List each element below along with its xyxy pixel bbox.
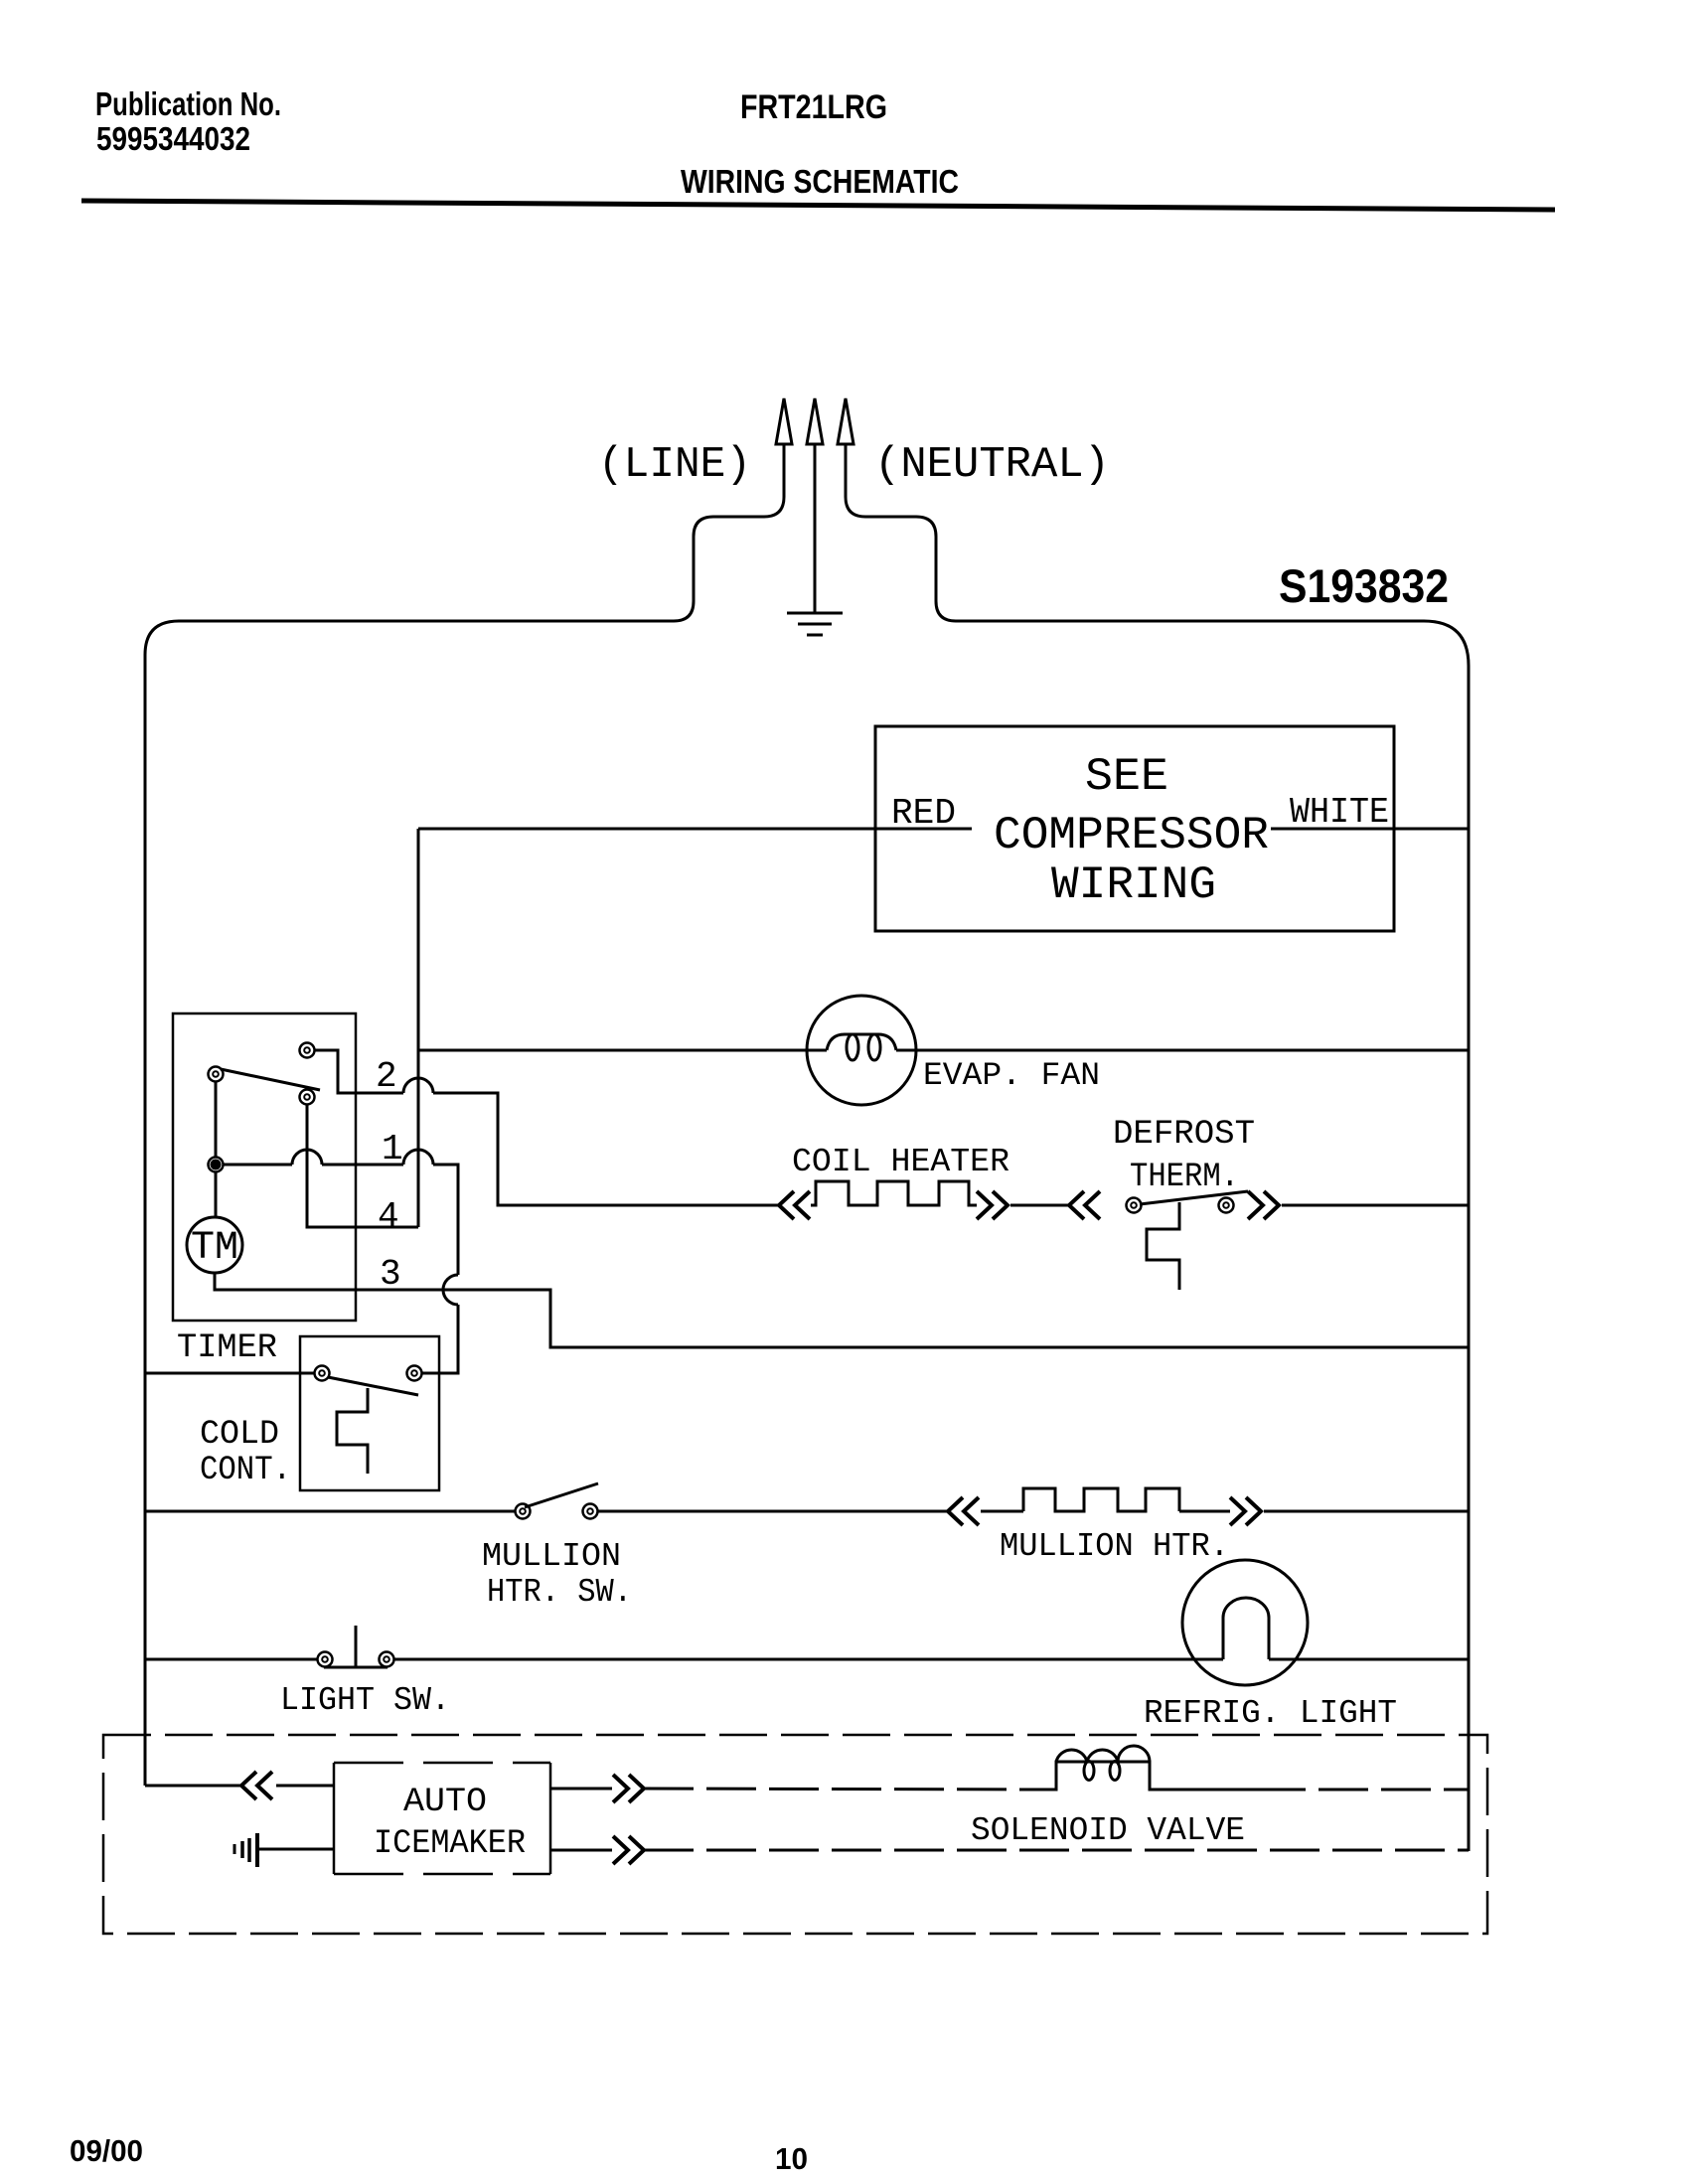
light switch right terminal [380,1652,394,1667]
timer box [173,1013,356,1321]
wire: LINE lead down-left into left bus [145,444,784,1786]
svg-text:FRT21LRG: FRT21LRG [740,88,887,126]
timer terminal 2 (top) [300,1043,315,1058]
wire: dashed run to solenoid valve [644,1789,1038,1790]
svg-text:EVAP. FAN: EVAP. FAN [923,1057,1100,1094]
cold control bellows [337,1388,368,1474]
plug arrow LINE [776,398,792,444]
wire: left bus to mullion switch [145,1510,515,1513]
wire: NEUTRAL lead down-right into right bus [846,444,1469,1851]
refrigerator light lamp [1182,1560,1308,1685]
svg-text:2: 2 [376,1056,397,1097]
icemaker connector << [241,1772,272,1799]
light switch actuator [324,1626,388,1667]
timer terminal common (upper left) [209,1067,224,1082]
light switch left terminal [318,1652,333,1667]
svg-text:LIGHT SW.: LIGHT SW. [280,1682,450,1719]
defrost thermostat connector << [1069,1191,1100,1219]
hop: row 2 over vertical branch [403,1078,433,1093]
wire: defrost row to neutral bus [1282,1204,1469,1207]
wire: row 3 from timer motor [215,1273,1469,1347]
auto icemaker box [334,1763,550,1874]
cold control switch blade [328,1377,418,1395]
svg-text:WIRING SCHEMATIC: WIRING SCHEMATIC [681,163,959,200]
svg-text:TIMER: TIMER [177,1329,277,1367]
wire: left bus to cold control [145,1372,314,1375]
svg-text:CONT.: CONT. [200,1452,291,1489]
wire: dashed return to neutral bus [644,1849,1469,1852]
wire: mullion heater to neutral bus [1264,1510,1469,1513]
svg-text:DEFROST: DEFROST [1113,1116,1255,1154]
wire: ground lead [814,444,817,613]
wire: heater to defrost thermostat [1010,1204,1069,1207]
svg-text:09/00: 09/00 [70,2133,143,2168]
compressor wiring box [875,726,1394,931]
svg-text:THERM.: THERM. [1130,1159,1239,1196]
timer terminal 1 (middle) [300,1090,315,1105]
wire: connector to icemaker box [276,1785,334,1788]
wire: ground to icemaker box [257,1848,334,1851]
hop: row 1 over vertical branch [403,1150,433,1165]
defrost thermostat left terminal [1127,1198,1142,1213]
timer switch blade [221,1069,320,1090]
svg-text:(LINE): (LINE) [598,440,751,490]
wire: terminal 2 to coil heater row [315,1050,403,1093]
icemaker connector >> (top) [613,1775,644,1802]
svg-text:4: 4 [378,1196,399,1237]
svg-text:MULLION: MULLION [482,1538,621,1575]
timer motor TM [187,1217,242,1273]
cold control right terminal [407,1366,422,1381]
coil heater connector << [779,1191,810,1219]
svg-text:TM: TM [191,1226,238,1271]
evap fan motor [807,996,916,1105]
wire: light switch to lamp [394,1658,1223,1661]
wire: evap fan to neutral bus [896,1049,1469,1052]
defrost thermostat right terminal [1219,1198,1234,1213]
svg-text:WHITE: WHITE [1290,792,1389,833]
wire: red compressor lead [418,828,972,831]
svg-text:5995344032: 5995344032 [96,120,250,157]
wire: row 1 from motor terminal [224,1164,292,1167]
mullion switch right terminal [583,1504,598,1519]
wire: icemaker output stub [550,1788,612,1791]
svg-text:SOLENOID VALVE: SOLENOID VALVE [971,1812,1245,1849]
hop: row 1 over terminal-1 drop [292,1150,322,1165]
mullion switch left terminal [516,1504,531,1519]
svg-text:(NEUTRAL): (NEUTRAL) [874,440,1110,490]
wire: drop continues to cold control right terminal [422,1305,458,1373]
svg-text:COIL HEATER: COIL HEATER [792,1144,1009,1180]
wire: upper-left to lower-left terminal [215,1082,218,1157]
svg-text:COLD: COLD [200,1416,279,1454]
wire: evap fan row [418,1049,827,1052]
wire: mullion switch to heater [598,1510,947,1513]
defrost thermostat connector >> [1248,1191,1279,1219]
header rule [81,201,1555,210]
icemaker ground symbol [234,1833,257,1867]
wire: icemaker return stub [550,1849,612,1852]
wire: stub [1179,1510,1230,1513]
timer terminal motor (lower left) [209,1158,224,1172]
wire: lower-left terminal to timer motor [215,1172,218,1217]
svg-text:10: 10 [775,2141,808,2176]
defrost thermostat blade [1140,1191,1248,1204]
icemaker connector >> (bottom) [613,1836,644,1864]
svg-text:Publication No.: Publication No. [95,85,281,122]
cold control box [300,1336,439,1490]
wire: dashed to neutral bus [1256,1789,1469,1791]
cold control left terminal [315,1366,330,1381]
defrost thermostat bellows [1147,1202,1179,1290]
mullion heater connector >> [1230,1497,1261,1525]
hop: cold control drop over row 3 [443,1275,458,1305]
wire: row 1 to cold control drop [433,1165,458,1275]
svg-text:AUTO: AUTO [403,1784,487,1821]
wire: terminal 1 drop to row 4 [307,1105,418,1227]
wire: lamp to neutral bus [1269,1658,1469,1661]
svg-text:SEE: SEE [1085,751,1168,803]
wire: white compressor lead to neutral bus [1271,828,1469,831]
mullion heater element [1023,1488,1179,1511]
wire: row 1 mid [322,1164,403,1167]
wire: row 2 continues, drops to coil heater row [433,1093,779,1205]
svg-text:COMPRESSOR: COMPRESSOR [994,810,1269,861]
svg-text:HTR. SW.: HTR. SW. [487,1574,632,1611]
coil heater element [811,1181,977,1205]
svg-text:S193832: S193832 [1279,559,1449,612]
wire: stub [981,1510,1023,1513]
mullion switch blade [525,1483,598,1507]
svg-text:REFRIG. LIGHT: REFRIG. LIGHT [1144,1695,1397,1732]
wire: vertical branch from red lead to timer contact 4 [417,829,420,1227]
solenoid valve coil [1038,1746,1256,1790]
wire: left bus feed to icemaker [145,1785,240,1788]
coil heater connector >> [977,1191,1008,1219]
mullion heater connector << [948,1497,979,1525]
plug arrow ground [807,398,823,444]
ground symbol (mains) [787,613,843,635]
svg-text:ICEMAKER: ICEMAKER [374,1825,526,1863]
icemaker kit dashed enclosure [103,1735,1487,1934]
plug arrow NEUTRAL [838,398,854,444]
svg-text:WIRING: WIRING [1051,859,1216,911]
svg-text:MULLION HTR.: MULLION HTR. [1000,1528,1229,1565]
wire: left bus to light switch [145,1658,317,1661]
